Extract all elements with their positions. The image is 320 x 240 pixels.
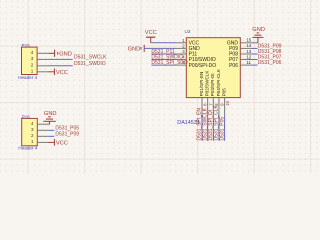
net label D531_P05	[219, 117, 225, 141]
svg-text:7: 7	[208, 103, 213, 106]
svg-text:Header 4: Header 4	[18, 75, 37, 80]
net label D531_SPI_CLK	[214, 105, 220, 141]
pin 4 of P16	[31, 121, 49, 126]
wire D531_SPI_DI	[212, 115, 214, 141]
svg-text:10: 10	[225, 100, 230, 106]
connector body P16	[22, 118, 38, 145]
net label D531_SWCLK	[74, 55, 107, 61]
pin 1 of P16	[31, 139, 49, 144]
svg-text:4: 4	[31, 121, 34, 126]
pin 15 GND (right)	[227, 38, 252, 47]
net label D531_P09	[55, 131, 79, 137]
svg-text:U3: U3	[185, 29, 191, 34]
wire D531_SPI_SDO	[151, 64, 175, 66]
svg-text:D531_P05: D531_P05	[219, 117, 225, 141]
wire D531_SPI_CLK	[218, 115, 220, 141]
wire IC pin 15 to GND	[252, 42, 258, 44]
svg-text:2: 2	[31, 133, 34, 138]
svg-text:GND: GND	[59, 51, 72, 57]
power port VCC above IC	[145, 30, 157, 43]
pin 9 P04/SPI-CLK (bottom)	[216, 68, 225, 115]
wire D531_P09	[49, 135, 55, 137]
net label D531_SPI_DI	[208, 110, 214, 141]
wire D531_P09	[252, 47, 258, 49]
svg-text:1: 1	[31, 68, 34, 73]
wire GND to IC pin 2	[144, 47, 175, 49]
wire D531_P08	[252, 53, 258, 55]
wire D531_SWCLK	[49, 58, 73, 60]
pin 3 of P15	[31, 56, 49, 61]
pin 5 P00/SPI-DO (left)	[175, 60, 216, 69]
svg-text:P00/SPI-DO: P00/SPI-DO	[189, 63, 217, 69]
wire P16 pin4 to ground	[49, 123, 50, 125]
svg-text:P05: P05	[222, 88, 227, 97]
ground GND left of IC pin 2	[128, 45, 145, 53]
pin 1 of P15	[31, 68, 49, 73]
ground GND at P15 pin 4	[49, 50, 58, 57]
wire D531_P05	[49, 129, 55, 131]
svg-text:1: 1	[31, 139, 34, 144]
svg-text:9: 9	[220, 103, 225, 106]
pin 10 P05 (bottom)	[222, 88, 231, 115]
wire D531_SWCLK	[207, 115, 209, 141]
svg-text:3: 3	[31, 56, 34, 61]
svg-text:P01/SPI-EN: P01/SPI-EN	[199, 72, 204, 97]
net label D531_P05	[55, 125, 79, 131]
net label D531_P08	[258, 49, 282, 55]
ground GND above IC right	[252, 33, 263, 43]
net label D531_SPI_EN	[197, 108, 203, 141]
svg-text:3: 3	[182, 49, 185, 54]
svg-text:P06: P06	[229, 63, 238, 69]
net label D531_SPI_SDO	[151, 60, 188, 66]
svg-text:13: 13	[246, 49, 252, 54]
svg-text:12: 12	[246, 54, 252, 59]
svg-text:Header 4: Header 4	[18, 146, 37, 151]
wire D531_SWDIO	[151, 59, 175, 61]
pin 12 P07 (right)	[229, 54, 252, 63]
pin 2 of P16	[31, 133, 49, 138]
pin 8 P03/SPI-DI (bottom)	[210, 73, 219, 114]
svg-text:14: 14	[246, 43, 252, 48]
pin 2 of P15	[31, 62, 49, 67]
net label D531_P06	[258, 60, 282, 66]
net label D531_P09	[258, 43, 282, 49]
svg-text:4: 4	[31, 50, 34, 55]
svg-text:2: 2	[182, 44, 185, 49]
net label D531_SWDIO	[74, 61, 106, 67]
svg-text:11: 11	[246, 60, 251, 65]
net label D531_SWCLK	[202, 107, 208, 140]
pin 14 P09 (right)	[229, 43, 252, 52]
net label D531_P11	[151, 49, 174, 55]
wire D531_P07	[252, 59, 258, 61]
pin 2 GND (left)	[175, 44, 200, 53]
IC body U3	[186, 38, 240, 98]
pin 7 P02/SWCLK (bottom)	[205, 70, 214, 115]
svg-text:D531_P06: D531_P06	[258, 60, 282, 66]
svg-text:VCC: VCC	[145, 30, 157, 36]
svg-text:GND: GND	[44, 111, 57, 117]
svg-text:3: 3	[31, 127, 34, 132]
svg-text:15: 15	[246, 38, 252, 43]
wire VCC to IC pin 1	[151, 42, 175, 44]
net label D531_P07	[258, 55, 282, 61]
connector body P15	[22, 47, 38, 74]
svg-text:1: 1	[182, 38, 185, 43]
wire D531_SPI_EN	[201, 115, 203, 141]
designator P16	[22, 114, 31, 119]
svg-text:D531_SPI_SDO: D531_SPI_SDO	[151, 60, 188, 66]
svg-text:D531_P09: D531_P09	[55, 131, 79, 137]
svg-text:D531_SWDIO: D531_SWDIO	[74, 61, 106, 67]
comment Header 4	[18, 75, 37, 80]
comment Header 4	[18, 146, 37, 151]
power port VCC at P15 pin 1	[49, 69, 68, 76]
svg-text:P03/SPI-DI: P03/SPI-DI	[210, 73, 215, 96]
wire D531_P05	[224, 115, 226, 141]
svg-text:VCC: VCC	[56, 70, 68, 76]
svg-text:2: 2	[31, 62, 34, 67]
svg-text:P04/SPI-CLK: P04/SPI-CLK	[216, 68, 221, 96]
svg-text:P02/SWCLK: P02/SWCLK	[205, 70, 210, 97]
net label D531_SWDIO	[151, 55, 183, 61]
wire D531_SWDIO	[49, 65, 73, 67]
comment DA14531	[177, 120, 199, 126]
designator P15	[22, 43, 31, 48]
pin 6 P01/SPI-EN (bottom)	[199, 72, 208, 115]
wire D531_P06	[252, 64, 258, 66]
pin 13 P08 (right)	[229, 49, 252, 58]
svg-text:6: 6	[203, 103, 208, 106]
svg-text:GND: GND	[252, 27, 265, 33]
pin 4 of P15	[31, 50, 49, 55]
pin 11 P06 (right)	[229, 60, 251, 69]
pin 3 of P16	[31, 127, 49, 132]
svg-text:GND: GND	[128, 47, 141, 53]
power port VCC at P16 pin 1	[49, 139, 68, 146]
pin 4 P10/SWDIO (left)	[175, 55, 216, 64]
pin 1 VCC (left)	[175, 38, 200, 47]
pin 3 P11 (left)	[175, 49, 197, 58]
ground GND above P16	[43, 117, 56, 124]
svg-text:D531_SWCLK: D531_SWCLK	[74, 55, 107, 61]
svg-text:VCC: VCC	[56, 140, 68, 146]
designator U3	[185, 29, 191, 34]
wire D531_P11	[151, 53, 175, 55]
